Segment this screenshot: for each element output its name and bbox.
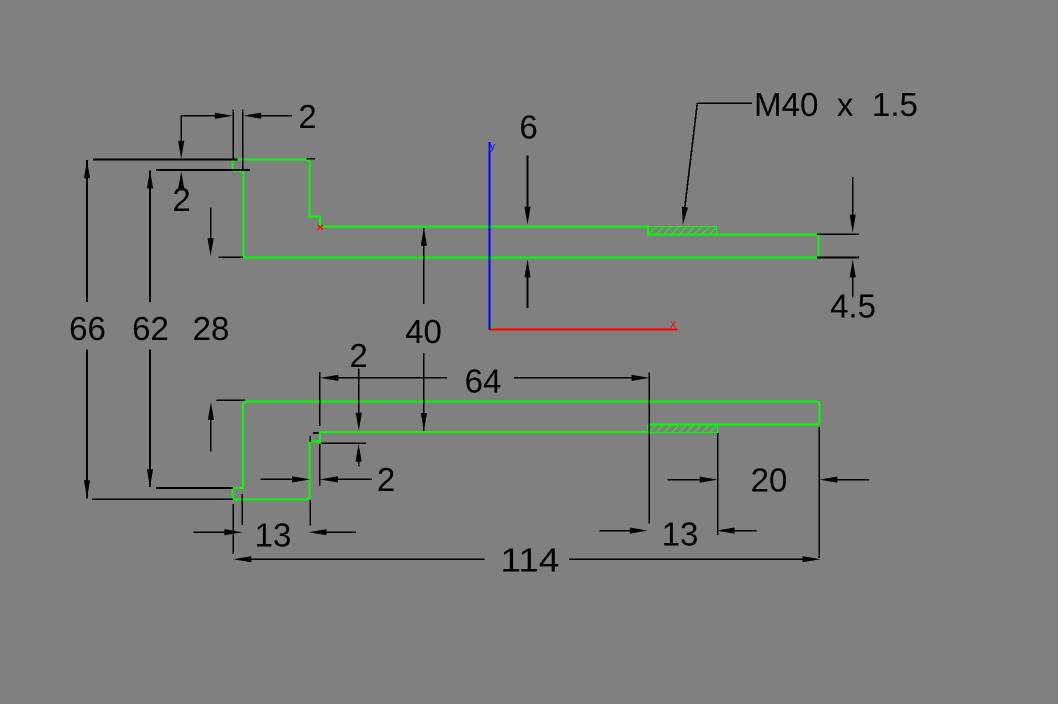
dimension 114 <box>233 504 820 578</box>
extension line top edge <box>93 158 315 161</box>
profile upper half outline <box>233 160 819 258</box>
dimension 13 right <box>600 433 757 553</box>
svg-text:13: 13 <box>255 517 292 554</box>
svg-text:28: 28 <box>193 310 230 347</box>
dimension 64 <box>320 363 650 524</box>
svg-text:x: x <box>670 318 676 330</box>
svg-text:M40 x 1.5: M40 x 1.5 <box>754 86 918 123</box>
svg-text:y: y <box>490 142 495 153</box>
dimension 66 <box>69 160 233 499</box>
svg-text:64: 64 <box>465 363 502 400</box>
dimension 6 <box>519 109 537 308</box>
dimension 2 step height (middle) <box>310 337 368 467</box>
svg-text:z: z <box>491 320 496 331</box>
svg-text:6: 6 <box>519 109 537 146</box>
svg-text:114: 114 <box>501 541 560 578</box>
dimension 40 <box>405 228 442 431</box>
svg-text:20: 20 <box>751 462 788 499</box>
dimension 4.5 <box>817 177 876 325</box>
dimension 62 <box>132 170 233 488</box>
svg-text:2: 2 <box>172 181 190 218</box>
svg-text:2: 2 <box>349 337 367 374</box>
dimension 20 <box>668 427 870 558</box>
leader M40 x 1.5 <box>682 86 918 225</box>
UCS icon Z origin <box>491 320 496 331</box>
red blip cross at step corner <box>318 225 323 230</box>
svg-text:4.5: 4.5 <box>830 288 876 325</box>
dimension 28 <box>193 208 245 452</box>
dimension 13 left <box>193 494 356 554</box>
dimension 2 lip width (top) <box>181 98 316 171</box>
svg-text:13: 13 <box>662 516 699 553</box>
svg-text:2: 2 <box>298 98 316 135</box>
UCS icon X axis <box>490 318 678 330</box>
svg-text:62: 62 <box>132 310 169 347</box>
profile lower half outline <box>233 402 820 500</box>
thread hatch upper <box>648 227 717 235</box>
dimension 2 lip height (left) <box>172 116 190 218</box>
svg-text:40: 40 <box>405 313 442 350</box>
svg-text:66: 66 <box>69 310 106 347</box>
svg-text:2: 2 <box>377 461 395 498</box>
UCS icon Y axis <box>490 142 496 331</box>
thread hatch lower <box>648 425 718 433</box>
dimension 2 step width (lower) <box>261 444 396 498</box>
extension line lip bottom <box>156 169 250 171</box>
